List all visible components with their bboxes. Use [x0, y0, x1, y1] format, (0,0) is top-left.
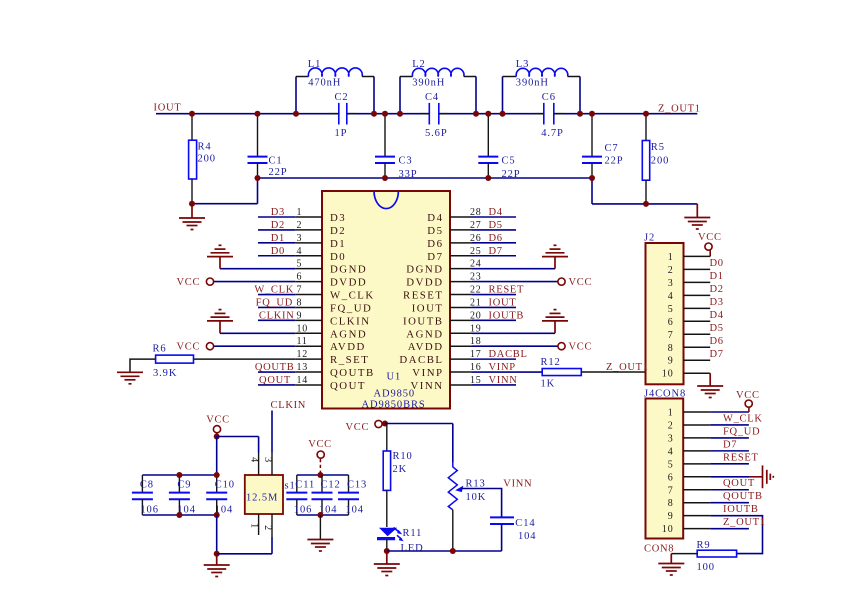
svg-text:R12: R12: [541, 357, 561, 368]
wire ground node to oscillator pin2: [217, 553, 272, 555]
svg-text:D7: D7: [723, 439, 737, 450]
svg-text:FQ_UD: FQ_UD: [330, 302, 372, 314]
svg-text:10: 10: [297, 323, 309, 334]
svg-text:470nH: 470nH: [308, 78, 341, 89]
svg-text:C10: C10: [215, 480, 235, 491]
svg-text:3: 3: [297, 233, 303, 244]
capacitor C12: [312, 475, 341, 516]
inductor L2: [400, 59, 476, 114]
svg-text:s1: s1: [285, 481, 296, 492]
capacitor C11: [286, 475, 315, 516]
wire R10 to LED: [386, 490, 388, 527]
svg-text:9: 9: [297, 310, 303, 321]
svg-text:3.9K: 3.9K: [153, 368, 177, 379]
svg-text:8: 8: [668, 343, 674, 354]
svg-text:390nH: 390nH: [412, 78, 445, 89]
svg-text:DGND: DGND: [406, 264, 443, 276]
capacitor C8: [132, 475, 159, 516]
svg-text:D5: D5: [710, 323, 724, 334]
svg-text:VCC: VCC: [177, 277, 201, 288]
wire J2 pin10 to ground: [709, 373, 711, 386]
wire R6 to ground: [130, 359, 156, 372]
J2 pin stubs: [684, 256, 711, 373]
svg-text:C12: C12: [321, 480, 341, 491]
svg-text:VINN: VINN: [489, 375, 518, 386]
svg-text:2: 2: [668, 420, 674, 431]
wire oscillator pin4 to VCC rail: [258, 437, 260, 453]
svg-text:D2: D2: [710, 284, 724, 295]
svg-text:IOUT: IOUT: [489, 297, 517, 308]
wire bypass bottom rail C8-C10: [142, 514, 216, 516]
svg-text:L2: L2: [412, 59, 425, 70]
svg-text:RESET: RESET: [489, 285, 525, 296]
U1 left pin numbers: [297, 207, 309, 386]
svg-text:106: 106: [294, 505, 312, 516]
svg-text:D0: D0: [271, 246, 285, 257]
resistor R12: [541, 357, 582, 390]
wire R9 left to ground: [671, 553, 697, 555]
wire D2 with net label: [258, 229, 295, 231]
ground AGND right: [542, 310, 568, 334]
svg-text:VINN: VINN: [503, 479, 532, 490]
svg-text:IOUTB: IOUTB: [723, 504, 759, 515]
junction dot LED ground: [384, 548, 390, 554]
svg-text:RESET: RESET: [403, 290, 444, 302]
svg-text:8: 8: [668, 498, 674, 509]
svg-text:DGND: DGND: [330, 264, 367, 276]
svg-text:D1: D1: [710, 271, 724, 282]
svg-text:8: 8: [297, 297, 303, 308]
U1 left pin stubs 1-14: [295, 217, 322, 385]
capacitor C3: [375, 114, 418, 181]
resistor R4: [189, 114, 216, 204]
svg-text:1P: 1P: [335, 128, 348, 139]
resistor R9: [697, 540, 737, 573]
wire rail segment 2 (C2 to C4): [347, 113, 430, 115]
svg-text:FQ_UD: FQ_UD: [723, 426, 760, 437]
svg-text:3: 3: [262, 457, 273, 463]
svg-text:CLKIN: CLKIN: [259, 310, 295, 321]
svg-text:VCC: VCC: [177, 342, 201, 353]
svg-text:VINP: VINP: [489, 362, 516, 373]
wire QOUTB with net label: [258, 371, 295, 373]
wire bypass top rail C8-C10: [142, 474, 216, 476]
svg-text:390nH: 390nH: [516, 78, 549, 89]
wire FQ_UD with net label: [258, 306, 295, 308]
svg-text:D5: D5: [489, 220, 503, 231]
svg-text:12.5M: 12.5M: [246, 492, 278, 503]
ground at J2 pin10: [697, 386, 723, 398]
svg-text:RESET: RESET: [723, 452, 759, 463]
svg-text:AD9850BRS: AD9850BRS: [362, 399, 426, 410]
capacitor C4: [420, 92, 449, 139]
capacitor C13: [338, 475, 367, 516]
wire DGND pin24 to ground: [472, 268, 555, 270]
svg-text:D4: D4: [427, 212, 443, 224]
svg-text:D1: D1: [271, 233, 285, 244]
wire J4 pin7 with net label QOUT: [710, 489, 749, 491]
wire J4 pin4 with net label D7: [710, 450, 749, 452]
wire AVDD pin18 to VCC: [472, 345, 558, 347]
wire bottom rail R11-R13-C14: [387, 550, 502, 552]
svg-text:R10: R10: [393, 451, 413, 462]
svg-text:AGND: AGND: [406, 328, 443, 340]
svg-text:7: 7: [297, 285, 303, 296]
wire ground stem right: [696, 204, 698, 218]
wire C12 rail to ground: [319, 515, 321, 540]
svg-text:C5: C5: [502, 156, 516, 167]
svg-text:104: 104: [346, 505, 364, 516]
svg-text:D4: D4: [489, 207, 503, 218]
svg-text:4: 4: [668, 446, 674, 457]
svg-text:R6: R6: [153, 344, 167, 355]
svg-text:AGND: AGND: [330, 328, 367, 340]
wire bypass top rail C11-C13: [297, 474, 349, 476]
wire VINP pin16 to R12: [472, 371, 542, 373]
svg-text:100: 100: [697, 562, 715, 573]
svg-text:1: 1: [668, 252, 674, 263]
svg-text:QOUT: QOUT: [330, 380, 366, 392]
ground for R6: [117, 372, 143, 384]
J2 net labels D0-D7: [710, 258, 724, 360]
capacitor C14: [490, 517, 536, 551]
svg-text:R4: R4: [198, 142, 212, 153]
svg-text:DVDD: DVDD: [406, 277, 443, 289]
svg-text:L3: L3: [516, 59, 529, 70]
svg-text:6: 6: [668, 317, 674, 328]
svg-text:C1: C1: [269, 156, 283, 167]
ground DGND right: [542, 245, 568, 268]
capacitor C6: [534, 92, 563, 139]
power VCC at J2 pin1: [698, 232, 722, 256]
svg-text:14: 14: [297, 375, 309, 386]
svg-text:6: 6: [668, 472, 674, 483]
svg-text:FQ_UD: FQ_UD: [256, 297, 293, 308]
svg-text:W_CLK: W_CLK: [330, 290, 375, 302]
J4 pin numbers 1-10: [662, 408, 674, 536]
svg-text:D5: D5: [427, 225, 443, 237]
svg-text:R5: R5: [651, 142, 665, 153]
svg-text:106: 106: [140, 505, 158, 516]
inductor L3: [503, 59, 581, 114]
svg-text:4: 4: [297, 246, 303, 257]
svg-text:22P: 22P: [605, 156, 624, 167]
svg-text:VCC: VCC: [346, 422, 370, 433]
svg-text:W_CLK: W_CLK: [723, 413, 763, 424]
wire ground stem R9: [670, 554, 672, 564]
U1 right pin numbers: [470, 207, 482, 386]
svg-text:D6: D6: [710, 336, 724, 347]
connector J4 body: [646, 399, 684, 539]
oscillator pin 2 stub: [271, 514, 273, 537]
ground at R9: [658, 564, 684, 576]
svg-text:IOUT: IOUT: [412, 302, 444, 314]
svg-text:7: 7: [668, 485, 674, 496]
svg-text:D7: D7: [710, 349, 724, 360]
wire ground stem LED: [386, 551, 388, 564]
svg-text:D7: D7: [489, 246, 503, 257]
svg-text:104: 104: [518, 531, 536, 542]
wire CLKIN with net label: [258, 319, 295, 321]
svg-text:U1: U1: [387, 372, 402, 383]
svg-text:Z_OUT1: Z_OUT1: [723, 517, 766, 528]
wire R4 ground link: [192, 203, 258, 205]
power VCC at R10: [346, 420, 383, 433]
wire right ground link: [592, 203, 697, 205]
junction dot osc ground node: [214, 551, 220, 557]
svg-text:C9: C9: [177, 480, 191, 491]
svg-text:C13: C13: [347, 480, 367, 491]
svg-text:2: 2: [262, 525, 273, 531]
ground DGND left: [207, 245, 233, 268]
capacitor C9: [169, 475, 196, 516]
wire QOUT with net label: [258, 384, 295, 386]
svg-text:3: 3: [668, 433, 674, 444]
svg-text:D2: D2: [271, 220, 285, 231]
svg-text:DACBL: DACBL: [399, 354, 443, 366]
svg-text:D6: D6: [489, 233, 503, 244]
svg-text:QOUTB: QOUTB: [330, 367, 375, 379]
svg-text:1: 1: [668, 408, 674, 419]
wire R13 branch down: [452, 424, 454, 463]
op-amp U1 AD9850 body: [322, 191, 450, 409]
wire D0 with net label: [258, 255, 295, 257]
svg-text:4: 4: [249, 457, 260, 463]
wire C7 bottom drop: [591, 178, 593, 204]
U1 right pin names: [399, 212, 443, 392]
wire rail segment 3 (C4 to C6): [439, 113, 544, 115]
svg-text:R9: R9: [697, 540, 711, 551]
wire R13 wiper to VINN node: [462, 489, 502, 518]
svg-text:D4: D4: [710, 310, 724, 321]
junction dot C12 bottom: [317, 512, 323, 518]
svg-text:AD9850: AD9850: [374, 388, 416, 399]
svg-text:QOUTB: QOUTB: [255, 362, 295, 373]
svg-text:9: 9: [668, 511, 674, 522]
svg-text:2K: 2K: [393, 464, 408, 475]
svg-text:10: 10: [662, 524, 674, 535]
svg-text:AVDD: AVDD: [330, 341, 366, 353]
wire J4 pin6 to ground right: [710, 476, 749, 478]
svg-text:C8: C8: [140, 480, 154, 491]
svg-text:CON8: CON8: [644, 544, 674, 555]
svg-text:D0: D0: [710, 258, 724, 269]
svg-text:11: 11: [297, 336, 308, 347]
wire D1 with net label: [258, 242, 295, 244]
resistor R5: [642, 114, 669, 204]
power VCC bypass right: [308, 439, 332, 475]
svg-text:5.6P: 5.6P: [425, 128, 448, 139]
svg-text:J2: J2: [644, 233, 655, 244]
power VCC at DVDD pin23: [558, 278, 565, 285]
svg-text:C14: C14: [515, 518, 535, 529]
svg-text:4: 4: [668, 291, 674, 302]
wire J4 pin9 to R9 with net label IOUTB: [710, 516, 762, 554]
svg-text:22P: 22P: [269, 167, 288, 178]
capacitor C10: [206, 475, 235, 516]
capacitor C7: [582, 114, 624, 178]
oscillator pin 4 stub: [258, 453, 260, 476]
wire D4 with net label: [472, 216, 516, 218]
junction dot R13 bottom: [450, 548, 456, 554]
svg-text:VCC: VCC: [206, 415, 230, 426]
svg-text:C11: C11: [295, 480, 315, 491]
wire DVDD pin6 to VCC: [214, 281, 296, 283]
wire R_SET pin12 to R6: [194, 358, 296, 360]
wire rail segment 4 (C6 to Z_OUT1): [554, 113, 698, 115]
wire R13 bottom to rail: [452, 510, 454, 551]
wire DVDD pin23 to VCC: [472, 281, 558, 283]
svg-text:VINP: VINP: [412, 367, 443, 379]
ground AGND left: [207, 310, 233, 334]
svg-text:10: 10: [662, 369, 674, 380]
wire C1 bottom drop: [257, 178, 259, 204]
ground for R4 / C1: [179, 204, 205, 230]
wire VINN pin15 with net label: [472, 384, 516, 386]
svg-text:1: 1: [297, 207, 303, 218]
svg-text:12: 12: [297, 349, 309, 360]
wire ground stem oscillator: [216, 554, 218, 565]
svg-text:D2: D2: [330, 225, 346, 237]
wire R12 to J2: [581, 371, 645, 373]
junction dot VCC R10: [382, 421, 388, 427]
wire DACBL with net label: [472, 358, 516, 360]
ground at C11-C13: [307, 540, 333, 552]
svg-text:1K: 1K: [541, 379, 556, 390]
wire D5 with net label: [472, 229, 516, 231]
U1 right pin stubs 28-15: [450, 217, 472, 385]
wire C10 rail down to ground node: [216, 515, 218, 554]
wire J4 pin8 with net label QOUTB: [710, 502, 749, 504]
wire VCC node to R13 branch: [385, 423, 453, 425]
svg-text:4.7P: 4.7P: [541, 128, 564, 139]
svg-text:2: 2: [297, 220, 303, 231]
svg-text:Z_OUT1: Z_OUT1: [658, 104, 701, 115]
junction dots on shunt ground rail: [255, 175, 596, 181]
oscillator S1 12.5M body: [245, 475, 283, 514]
power VCC at AVDD pin18: [558, 343, 565, 350]
ground rotated at J4 pin6: [763, 465, 774, 488]
svg-text:200: 200: [651, 156, 669, 167]
inductor L1: [296, 59, 374, 114]
svg-text:1: 1: [249, 523, 260, 529]
oscillator pin 1 stub (NC): [258, 514, 260, 535]
svg-text:9: 9: [668, 356, 674, 367]
svg-text:LED: LED: [401, 543, 424, 554]
wire D3 with net label: [258, 216, 295, 218]
svg-text:QOUT: QOUT: [259, 375, 291, 386]
resistor R10: [383, 451, 413, 490]
LED R11: [377, 528, 424, 555]
svg-text:7: 7: [668, 330, 674, 341]
svg-text:IOUTB: IOUTB: [403, 315, 444, 327]
svg-text:C3: C3: [399, 156, 413, 167]
junction dot R4 ground: [189, 201, 195, 207]
svg-text:VCC: VCC: [569, 342, 593, 353]
wire AGND pin19 to ground: [472, 332, 555, 334]
potentiometer R13: [448, 462, 486, 510]
svg-text:D6: D6: [427, 238, 443, 250]
ground at LED: [374, 564, 400, 576]
svg-text:6: 6: [297, 272, 303, 283]
svg-text:C4: C4: [425, 92, 439, 103]
svg-text:3: 3: [668, 278, 674, 289]
oscillator pin 3 stub: [271, 453, 273, 476]
junction dot VCC osc: [214, 434, 220, 440]
svg-text:L1: L1: [308, 59, 321, 70]
power VCC at AVDD pin11: [206, 343, 213, 350]
svg-text:5: 5: [668, 304, 674, 315]
wire IOUTB pin20 with net label: [472, 319, 516, 321]
svg-text:D1: D1: [330, 238, 346, 250]
connector J2 body: [646, 243, 684, 384]
wire bypass bottom rail C11-C13: [297, 514, 349, 516]
power VCC at DVDD pin6: [206, 278, 213, 285]
J4 pin stubs black: [683, 412, 710, 529]
wire J4 pin3 with net label FQ_UD: [710, 437, 749, 439]
J2 pin numbers 1-10: [662, 252, 674, 380]
U1 left pin names: [330, 212, 375, 392]
svg-text:IOUT: IOUT: [154, 103, 182, 114]
wire RESET with net label: [472, 294, 516, 296]
svg-text:Z_OUT1: Z_OUT1: [606, 362, 649, 373]
svg-text:AVDD: AVDD: [408, 341, 444, 353]
svg-text:D7: D7: [427, 251, 443, 263]
wire IOUT output rail segment 1: [156, 113, 339, 115]
power VCC oscillator left: [206, 415, 230, 437]
junction dot C12 top: [317, 472, 323, 478]
svg-text:D3: D3: [330, 212, 346, 224]
wire J4 pin5 with net label RESET: [710, 463, 749, 465]
wire D6 with net label: [472, 242, 516, 244]
wire VCC to R10: [386, 424, 388, 452]
junction dot R5 ground: [643, 201, 649, 207]
power VCC at J4 pin1: [736, 390, 760, 412]
svg-text:2: 2: [668, 265, 674, 276]
wire oscillator pin2 down: [271, 537, 273, 554]
ground for R5 / C7: [684, 218, 710, 230]
wire DGND pin5 to ground: [220, 268, 295, 270]
svg-text:13: 13: [297, 362, 309, 373]
resistor R6: [153, 344, 194, 380]
wire J4 pin1 to VCC: [710, 411, 749, 413]
junction dots bypass rails left: [176, 472, 219, 518]
ground at oscillator: [204, 565, 230, 577]
svg-text:R_SET: R_SET: [330, 354, 369, 366]
svg-text:C2: C2: [335, 92, 349, 103]
svg-text:VINN: VINN: [411, 380, 444, 392]
wire shunt ground rail: [258, 177, 593, 179]
svg-text:IOUTB: IOUTB: [489, 310, 525, 321]
wire IOUT pin21 with net label: [472, 306, 516, 308]
wire J4 pin2 with net label W_CLK: [710, 424, 749, 426]
wire LED to ground rail: [386, 540, 388, 551]
capacitor C5: [478, 114, 520, 181]
svg-text:VCC: VCC: [308, 439, 332, 450]
wire J4 pin10 with net label Z_OUT1: [710, 528, 749, 530]
wire ground stem J4 pin6: [750, 476, 763, 478]
svg-text:5: 5: [297, 259, 303, 270]
capacitor C2: [329, 92, 356, 139]
wire VCC down to bypass rail: [216, 437, 218, 476]
wire W_CLK with net label: [258, 294, 295, 296]
svg-text:QOUT: QOUT: [723, 478, 755, 489]
svg-text:QOUTB: QOUTB: [723, 491, 763, 502]
svg-text:VCC: VCC: [736, 390, 760, 401]
svg-text:VCC: VCC: [569, 277, 593, 288]
svg-text:J4CON8: J4CON8: [644, 389, 686, 400]
svg-text:5: 5: [668, 459, 674, 470]
